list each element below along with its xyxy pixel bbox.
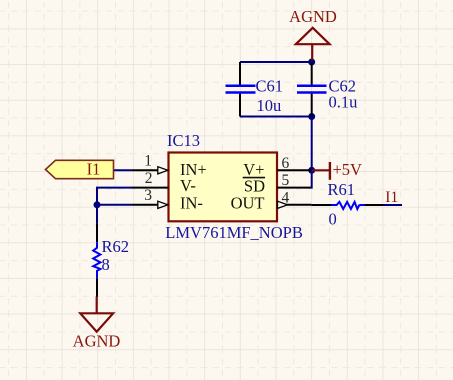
op-amp IC13 LMV761MF_NOPB [165, 131, 303, 242]
svg-text:0: 0 [329, 210, 337, 229]
power +5V [312, 160, 362, 180]
capacitor C62 [297, 62, 357, 117]
pin 6 V+ [243, 155, 311, 179]
net label I1 [385, 189, 398, 206]
capacitor C61 [226, 62, 284, 117]
junction pin3 net [94, 201, 101, 208]
svg-text:I1: I1 [87, 160, 101, 179]
svg-text:10u: 10u [257, 96, 282, 115]
svg-text:IN-: IN- [180, 193, 203, 212]
svg-text:AGND: AGND [289, 7, 337, 26]
svg-text:+5V: +5V [333, 160, 363, 179]
svg-text:IC13: IC13 [167, 131, 200, 150]
wire bottom rail [240, 116, 312, 118]
junction bottom rail [308, 113, 315, 120]
svg-text:4: 4 [282, 189, 290, 206]
svg-text:OUT: OUT [231, 193, 265, 212]
svg-text:AGND: AGND [73, 331, 121, 350]
wire pin2 to vertical [97, 188, 132, 224]
junction top rail [308, 59, 315, 66]
svg-text:V-: V- [180, 176, 196, 195]
resistor R62 [93, 223, 129, 297]
svg-text:C61: C61 [256, 77, 284, 96]
wire output right [383, 204, 402, 206]
ground AGND bottom [73, 297, 121, 351]
svg-text:0.1u: 0.1u [329, 93, 358, 112]
resistor R61 [311, 180, 383, 229]
svg-text:R61: R61 [328, 180, 356, 199]
svg-text:5: 5 [282, 172, 290, 189]
svg-text:1: 1 [144, 153, 152, 170]
pin 2 V- [132, 170, 196, 195]
svg-text:3: 3 [144, 187, 152, 204]
ground AGND top [289, 7, 337, 60]
svg-text:8: 8 [102, 255, 110, 274]
pin 1 IN+ [132, 153, 207, 179]
pin 5 SD [243, 172, 311, 195]
svg-text:R62: R62 [102, 237, 130, 256]
wire port to pin1 [114, 169, 133, 171]
wire vertical right to pin5 [311, 117, 312, 188]
wire top rail AGND net [240, 61, 312, 63]
wire pin3 stub [97, 204, 132, 206]
pin 3 IN- [132, 187, 203, 212]
junction +5V pin6 [308, 167, 315, 174]
svg-text:LMV761MF_NOPB: LMV761MF_NOPB [165, 223, 303, 242]
port I1 [46, 160, 114, 179]
svg-text:I1: I1 [385, 189, 398, 206]
pin 4 OUT [231, 189, 312, 212]
svg-text:6: 6 [282, 155, 290, 172]
svg-text:2: 2 [145, 170, 153, 187]
